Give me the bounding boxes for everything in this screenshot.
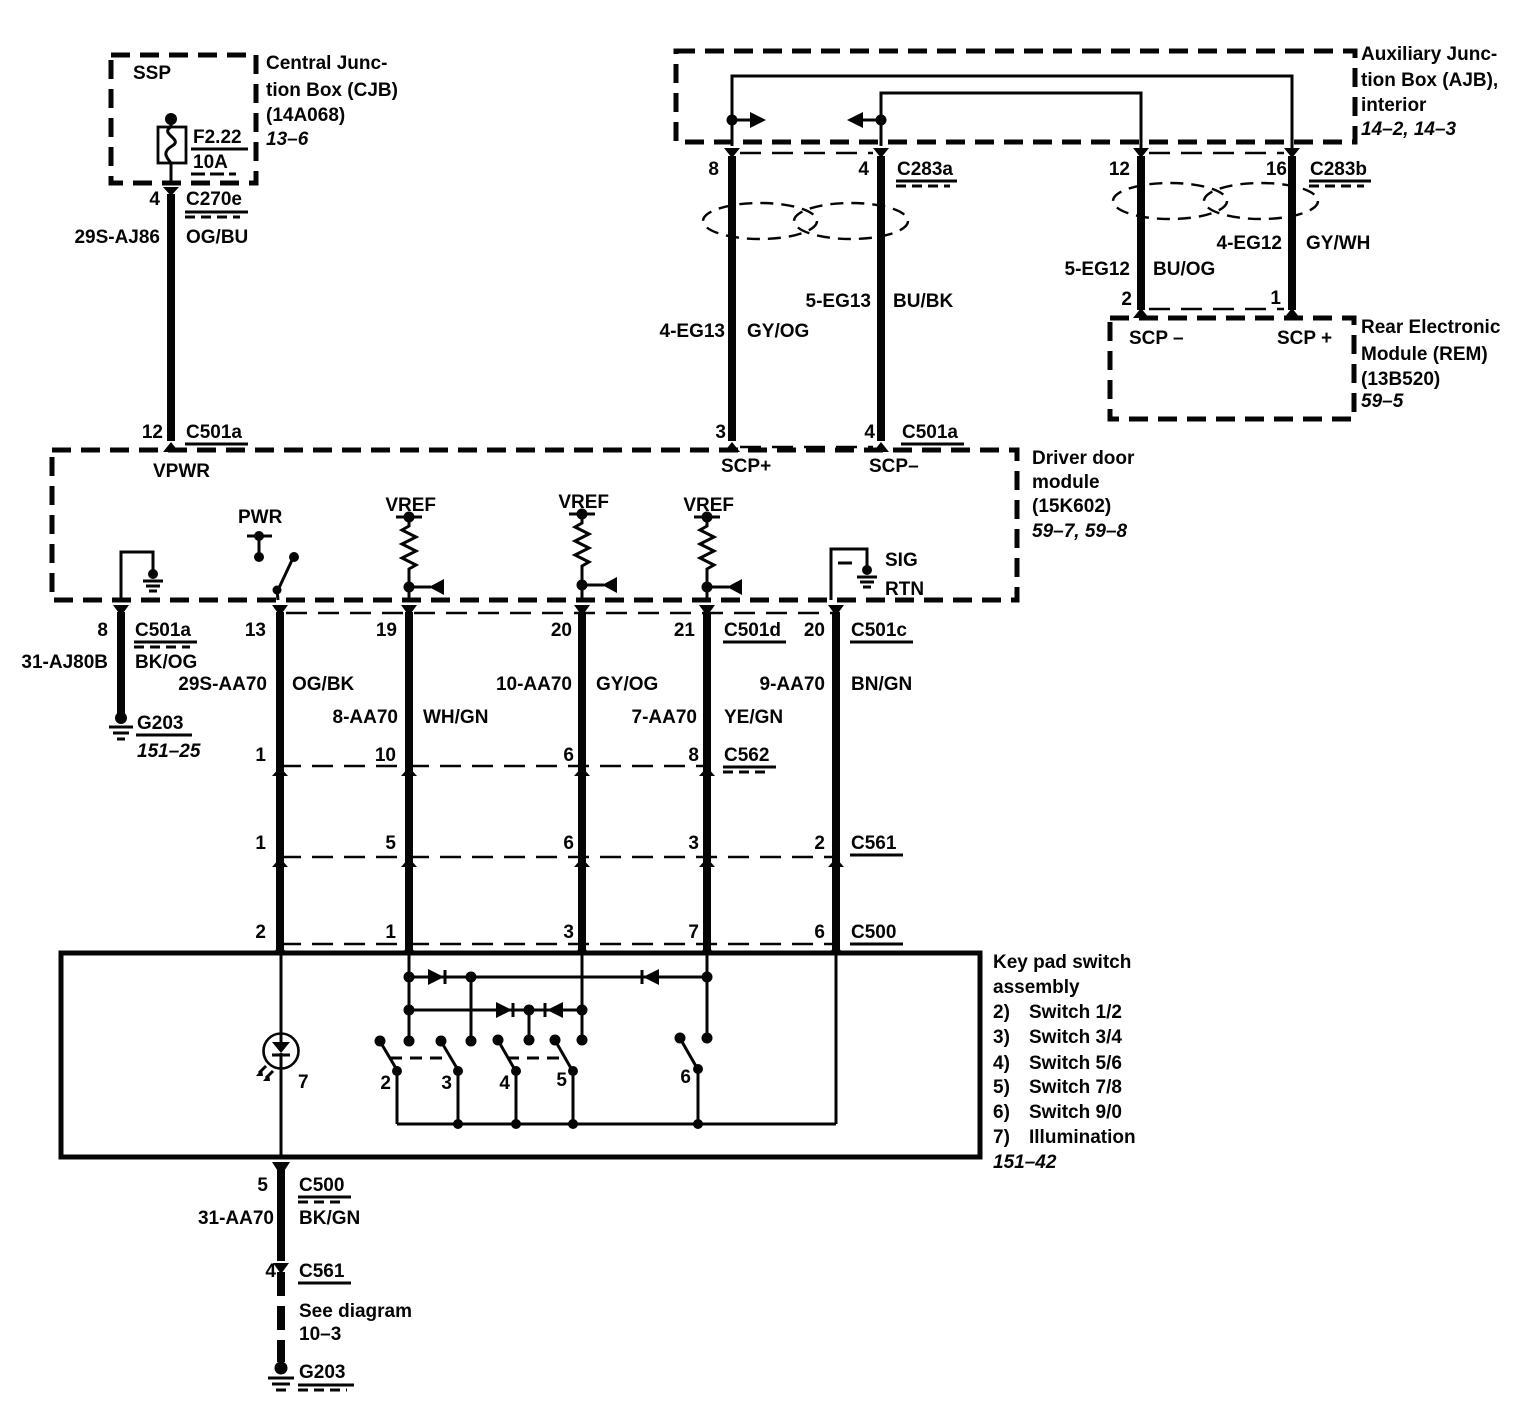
svg-text:1: 1 (385, 922, 396, 943)
wire 5-EG13 BU/BK pin 4 (806, 148, 957, 441)
module internal ground return to pin 8 (121, 552, 163, 600)
switch link 4-5 (507, 1057, 566, 1060)
svg-text:SCP –: SCP – (1129, 328, 1184, 349)
Rear Electronic Module (REM) enclosure (1110, 318, 1354, 419)
AJB title text (1361, 44, 1498, 140)
svg-text:5: 5 (385, 833, 396, 854)
svg-text:C561: C561 (299, 1261, 345, 1282)
svg-text:Switch 3/4: Switch 3/4 (1029, 1027, 1122, 1048)
Auxiliary Junction Box (AJB) enclosure (676, 51, 1355, 142)
wire pin 21 vertical 7-AA70 YE/GN (632, 605, 786, 950)
svg-text:SCP–: SCP– (869, 456, 919, 477)
svg-text:2: 2 (380, 1073, 391, 1094)
diode D3 (496, 1002, 512, 1018)
svg-text:7-AA70: 7-AA70 (632, 707, 697, 728)
svg-text:C270e: C270e (186, 189, 242, 210)
broken wire to G203 (281, 1272, 412, 1362)
wire pin 19 vertical 8-AA70 WH/GN (333, 605, 489, 950)
svg-text:BN/GN: BN/GN (851, 674, 912, 695)
svg-text:F2.22: F2.22 (193, 127, 242, 148)
svg-text:SSP: SSP (133, 63, 171, 84)
drop from row B to contact (528, 1010, 531, 1040)
svg-text:WH/GN: WH/GN (423, 707, 488, 728)
svg-text:BK/OG: BK/OG (135, 652, 197, 673)
diode row A (404, 969, 713, 985)
svg-text:6): 6) (993, 1102, 1010, 1123)
svg-text:12: 12 (142, 422, 163, 443)
svg-text:SCP+: SCP+ (721, 456, 771, 477)
svg-text:GY/OG: GY/OG (747, 321, 809, 342)
svg-text:151–25: 151–25 (137, 741, 201, 762)
svg-text:29S-AA70: 29S-AA70 (178, 674, 267, 695)
svg-text:2: 2 (814, 833, 825, 854)
Central Junction Box (CJB) enclosure (111, 55, 256, 183)
svg-text:6: 6 (814, 922, 825, 943)
svg-text:Module (REM): Module (REM) (1361, 344, 1488, 365)
svg-text:C500: C500 (851, 922, 896, 943)
svg-text:G203: G203 (299, 1362, 345, 1383)
diode D1 (428, 969, 444, 985)
connector C561 tail crossing (265, 1261, 351, 1283)
resistor VREF 1 (pin 19) (385, 495, 444, 600)
svg-text:Switch 7/8: Switch 7/8 (1029, 1077, 1122, 1098)
svg-text:10–3: 10–3 (299, 1324, 341, 1345)
connector row thin dash below module (286, 612, 836, 615)
svg-text:2): 2) (993, 1002, 1010, 1023)
svg-text:31-AA70: 31-AA70 (198, 1208, 274, 1229)
svg-text:tion Box (AJB),: tion Box (AJB), (1361, 70, 1498, 91)
REM pin 2 SCP- (1121, 289, 1183, 349)
svg-text:14–2, 14–3: 14–2, 14–3 (1361, 119, 1457, 140)
twisted pair symbol left (703, 203, 908, 239)
illumination lamp wire (280, 953, 283, 1034)
connector row C562 (255, 745, 776, 776)
svg-text:BU/OG: BU/OG (1153, 259, 1215, 280)
lamp lower wire to box bottom (280, 1068, 283, 1157)
svg-text:Driver door: Driver door (1032, 448, 1135, 469)
wire 4-EG12 GY/WH pin 16 (1217, 148, 1371, 310)
keypad vertical from pin 1 wire (408, 953, 411, 1041)
svg-text:19: 19 (376, 620, 397, 641)
switch 5 (550, 1035, 579, 1125)
node PWR and power switch (238, 507, 299, 600)
svg-text:16: 16 (1266, 159, 1287, 180)
svg-text:6: 6 (563, 745, 574, 766)
svg-text:59–7, 59–8: 59–7, 59–8 (1032, 521, 1128, 542)
svg-text:1: 1 (1270, 288, 1281, 309)
Key pad switch assembly enclosure (61, 953, 980, 1157)
diode D4 (544, 1003, 547, 1017)
svg-text:4): 4) (993, 1053, 1010, 1074)
svg-text:8: 8 (97, 620, 108, 641)
Key pad switch assembly title text (993, 952, 1136, 1173)
svg-text:20: 20 (804, 620, 825, 641)
svg-text:3): 3) (993, 1027, 1010, 1048)
svg-text:BU/BK: BU/BK (893, 291, 953, 312)
svg-text:9-AA70: 9-AA70 (760, 674, 825, 695)
svg-text:5): 5) (993, 1077, 1010, 1098)
svg-text:Central Junc-: Central Junc- (266, 53, 387, 74)
svg-text:6: 6 (680, 1067, 691, 1088)
REM connector thin dash (1149, 308, 1284, 311)
wire 4-EG13 GY/OG pin 8 (660, 148, 810, 441)
AJB connector outline dashes left pair (740, 152, 873, 155)
svg-text:(13B520): (13B520) (1361, 369, 1440, 390)
svg-text:3: 3 (688, 833, 699, 854)
REM pin 1 SCP+ (1270, 288, 1332, 349)
svg-text:Switch 1/2: Switch 1/2 (1029, 1002, 1122, 1023)
svg-text:Switch 5/6: Switch 5/6 (1029, 1053, 1122, 1074)
svg-text:4: 4 (864, 422, 875, 443)
svg-text:13: 13 (245, 620, 266, 641)
connector C270e crossing (149, 187, 248, 217)
switch 4 (493, 1035, 522, 1125)
svg-text:See diagram: See diagram (299, 1301, 412, 1322)
svg-text:4: 4 (149, 189, 160, 210)
switch 6 (675, 1033, 704, 1125)
AJB internal bus wire lower (pin 4 to pin 12) (847, 93, 1141, 148)
svg-text:59–5: 59–5 (1361, 391, 1404, 412)
wire 31-AJ80B BK/OG pin 8 to G203 (21, 605, 197, 714)
svg-text:3: 3 (441, 1073, 452, 1094)
resistor VREF 2 (pin 20) (558, 492, 617, 600)
svg-text:2: 2 (1121, 289, 1132, 310)
svg-text:(15K602): (15K602) (1032, 496, 1111, 517)
svg-text:RTN: RTN (885, 579, 924, 600)
connector C500 keypad exit (257, 1162, 351, 1202)
svg-text:VPWR: VPWR (153, 461, 210, 482)
svg-text:5: 5 (257, 1175, 268, 1196)
drop from row A to contact (470, 977, 473, 1041)
svg-text:Rear Electronic: Rear Electronic (1361, 317, 1501, 338)
svg-text:2: 2 (255, 922, 266, 943)
svg-text:20: 20 (551, 620, 572, 641)
svg-text:4: 4 (499, 1073, 510, 1094)
svg-text:7): 7) (993, 1127, 1010, 1148)
Driver door module enclosure (52, 450, 1017, 600)
svg-text:C501a: C501a (902, 422, 958, 443)
svg-text:10-AA70: 10-AA70 (496, 674, 572, 695)
wire pin 13 vertical 29S-AA70 OG/BK (178, 605, 354, 950)
module top connector pin 4 C501a (864, 422, 964, 452)
svg-text:4: 4 (265, 1261, 276, 1282)
svg-text:Illumination: Illumination (1029, 1127, 1136, 1148)
switch 3 (436, 1036, 464, 1125)
svg-text:GY/OG: GY/OG (596, 674, 658, 695)
svg-text:assembly: assembly (993, 977, 1080, 998)
svg-text:7: 7 (688, 922, 699, 943)
svg-text:YE/GN: YE/GN (724, 707, 783, 728)
module top connector thin dash between pin3 pin4 (740, 446, 873, 449)
svg-text:PWR: PWR (238, 507, 283, 528)
svg-text:tion Box (CJB): tion Box (CJB) (266, 80, 398, 101)
Driver door module title text (1032, 448, 1135, 542)
svg-text:151–42: 151–42 (993, 1152, 1057, 1173)
node SIG RTN with ground (831, 549, 924, 600)
svg-text:C501a: C501a (135, 620, 191, 641)
twisted pair symbol right (1113, 183, 1318, 219)
svg-text:29S-AJ86: 29S-AJ86 (74, 227, 160, 248)
svg-text:GY/WH: GY/WH (1306, 233, 1370, 254)
ground G203 bottom (268, 1362, 354, 1391)
svg-text:5-EG12: 5-EG12 (1065, 259, 1130, 280)
switch link 2-3 (390, 1057, 449, 1060)
svg-text:5: 5 (556, 1070, 567, 1091)
svg-text:3: 3 (563, 922, 574, 943)
svg-text:(14A068): (14A068) (266, 105, 345, 126)
AJB internal bus wire upper (pin 8 to pin 16) (727, 76, 1293, 148)
svg-text:C561: C561 (851, 833, 897, 854)
svg-text:8: 8 (688, 745, 699, 766)
wire 29S-AJ86 OG/BU (167, 194, 175, 441)
svg-text:OG/BK: OG/BK (292, 674, 355, 695)
svg-text:31-AJ80B: 31-AJ80B (21, 652, 108, 673)
wire 31-AA70 BK/GN (198, 1170, 360, 1261)
svg-text:OG/BU: OG/BU (186, 227, 248, 248)
svg-text:C501c: C501c (851, 620, 907, 641)
svg-text:interior: interior (1361, 95, 1427, 116)
module top connector pin 3 (715, 422, 740, 452)
svg-text:Key pad switch: Key pad switch (993, 952, 1131, 973)
diode D2 (641, 970, 644, 984)
svg-text:1: 1 (255, 833, 266, 854)
svg-text:C500: C500 (299, 1175, 344, 1196)
connector C501a module top pin 12 (142, 422, 248, 452)
svg-text:C501d: C501d (724, 620, 781, 641)
svg-text:C283a: C283a (897, 159, 953, 180)
svg-text:C283b: C283b (1310, 159, 1367, 180)
svg-text:3: 3 (715, 422, 726, 443)
CJB title text (266, 53, 398, 150)
svg-text:SCP +: SCP + (1277, 328, 1332, 349)
svg-text:Switch 9/0: Switch 9/0 (1029, 1102, 1122, 1123)
AJB connector outline dashes right pair (1149, 152, 1284, 155)
svg-text:SIG: SIG (885, 550, 918, 571)
fixed contact dots (404, 1036, 415, 1047)
keypad vertical from pin 7 wire (706, 953, 709, 1038)
svg-text:8-AA70: 8-AA70 (333, 707, 398, 728)
wire pin 20 C501c vertical 9-AA70 BN/GN (760, 605, 913, 950)
svg-text:13–6: 13–6 (266, 129, 309, 150)
switch 2 (375, 1036, 403, 1125)
connector row C500 (255, 922, 903, 954)
svg-text:5-EG13: 5-EG13 (806, 291, 871, 312)
svg-text:10: 10 (375, 745, 396, 766)
svg-text:12: 12 (1109, 159, 1130, 180)
svg-text:BK/GN: BK/GN (299, 1208, 360, 1229)
lamp 7 LED (256, 1034, 309, 1094)
svg-text:C501a: C501a (186, 422, 242, 443)
svg-text:4-EG12: 4-EG12 (1217, 233, 1282, 254)
svg-text:G203: G203 (137, 713, 183, 734)
fuse F2.22 10A (158, 113, 248, 185)
keypad vertical from pin 6 wire to bus (835, 953, 838, 1124)
svg-text:Auxiliary Junc-: Auxiliary Junc- (1361, 44, 1497, 65)
connector row C561 (255, 833, 903, 867)
REM title text (1361, 317, 1501, 412)
svg-text:C562: C562 (724, 745, 769, 766)
svg-text:module: module (1032, 472, 1100, 493)
svg-text:8: 8 (708, 159, 719, 180)
keypad vertical from pin 3 wire (581, 953, 584, 1040)
wire 5-EG12 BU/OG pin 12 (1065, 148, 1216, 310)
svg-text:4: 4 (858, 159, 869, 180)
ground G203 left (109, 712, 201, 762)
resistor VREF 3 (pin 21) (683, 495, 742, 600)
wire pin 20 vertical 10-AA70 GY/OG (496, 605, 658, 950)
svg-text:10A: 10A (193, 152, 228, 173)
svg-text:7: 7 (298, 1072, 309, 1093)
svg-text:4-EG13: 4-EG13 (660, 321, 725, 342)
svg-text:6: 6 (563, 833, 574, 854)
diode row B (404, 1002, 588, 1018)
svg-text:1: 1 (255, 745, 266, 766)
svg-text:21: 21 (674, 620, 696, 641)
common bus wire (397, 1119, 836, 1129)
